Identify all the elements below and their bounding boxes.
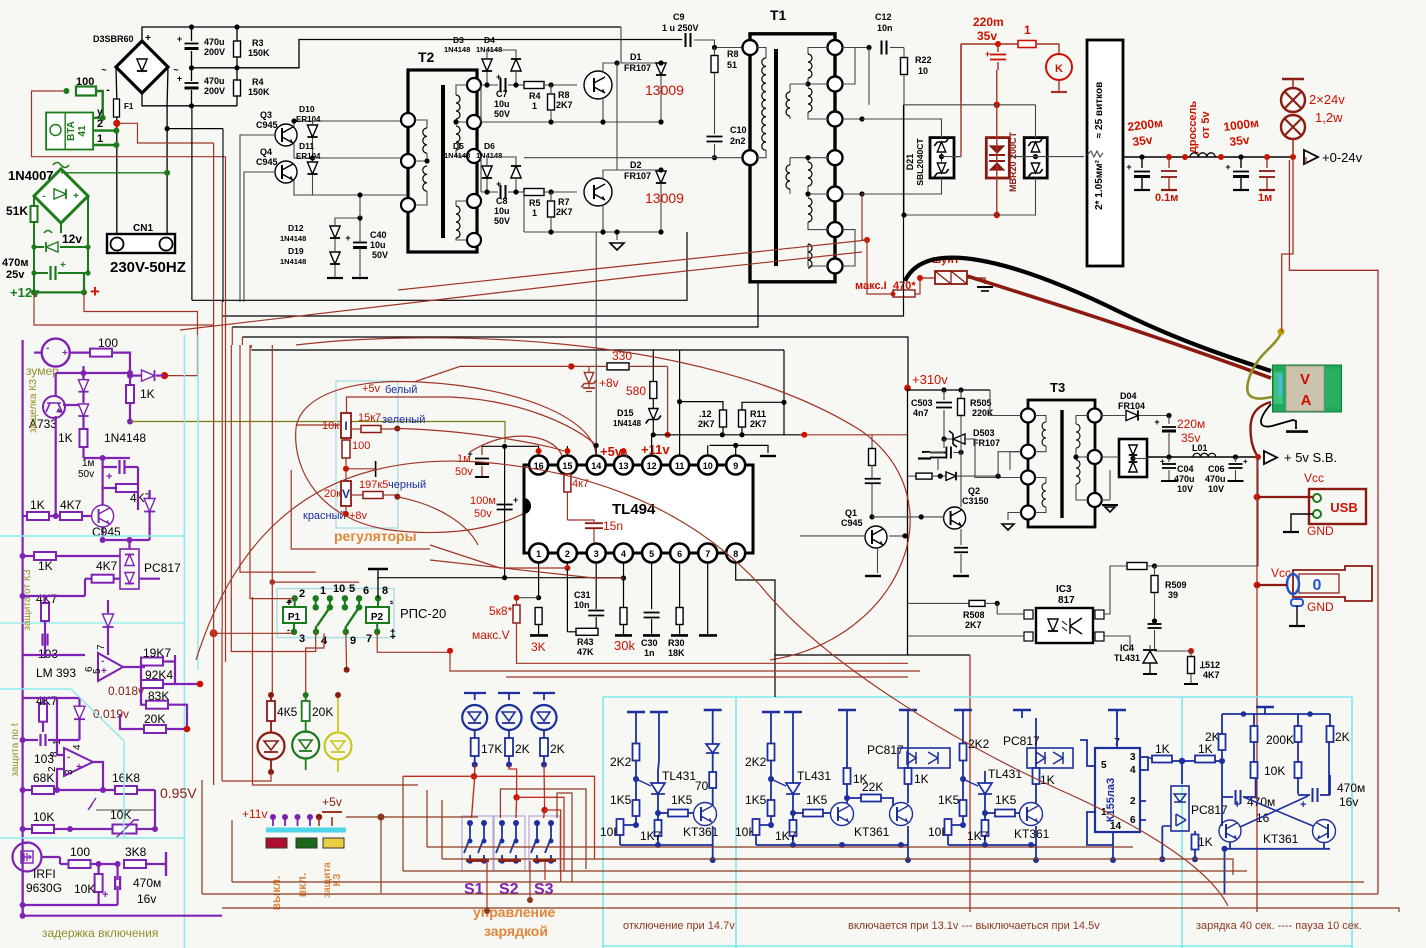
wire mid rail — [192, 40, 683, 68]
wire usb gnd — [1291, 514, 1313, 531]
svg-text:0.1м: 0.1м — [1155, 192, 1178, 204]
resistor above R509 — [1127, 563, 1147, 570]
bridge rectifier D3SBR60 — [116, 41, 168, 93]
svg-text:10u: 10u — [494, 99, 510, 109]
svg-text:+: + — [106, 471, 112, 483]
wire T3 pin2 to Q2 — [1010, 452, 1021, 470]
wire green AC to CN1 column — [61, 172, 167, 174]
wire relay feed pin2 — [250, 345, 295, 599]
svg-text:Ʇ512: Ʇ512 — [1199, 660, 1220, 670]
wire q bases feed — [222, 129, 224, 302]
svg-text:T3: T3 — [1050, 380, 1065, 395]
resistor 4K7 opto — [92, 575, 114, 583]
svg-text:зеленый: зеленый — [382, 414, 425, 426]
schottky block — [1119, 439, 1147, 477]
wire pin2 down — [566, 562, 568, 568]
svg-text:1: 1 — [532, 208, 537, 218]
svg-text:2K7: 2K7 — [750, 419, 767, 429]
svg-text:+: + — [102, 889, 108, 901]
svg-text:I: I — [344, 419, 347, 433]
wire usb vcc red — [1254, 494, 1261, 501]
svg-text:+: + — [513, 495, 518, 505]
wire right big loop red — [1305, 157, 1307, 163]
svg-text:К155ла3: К155ла3 — [1105, 778, 1117, 822]
wire top rail to D1 — [621, 27, 661, 63]
svg-text:9630G: 9630G — [26, 881, 62, 895]
relay cyan box — [277, 589, 394, 638]
svg-text:-: - — [42, 191, 45, 202]
capacitor 15n red — [566, 507, 568, 520]
wire relay pin3 bus — [210, 629, 218, 637]
svg-text:470м: 470м — [133, 876, 161, 890]
svg-text:+: + — [60, 260, 66, 271]
svg-text:35v: 35v — [977, 29, 997, 43]
resistor 16K8 — [115, 786, 137, 794]
resistor 68K — [32, 786, 54, 794]
svg-text:C945: C945 — [841, 518, 863, 528]
svg-text:1,2w: 1,2w — [1315, 110, 1343, 125]
triac BTA41 — [46, 113, 93, 150]
svg-text:10: 10 — [918, 66, 928, 76]
svg-text:200V: 200V — [204, 47, 225, 57]
svg-text:защита по t: защита по t — [10, 723, 21, 777]
svg-text:150K: 150K — [248, 87, 270, 97]
svg-text:4: 4 — [621, 549, 626, 559]
svg-text:2×24v: 2×24v — [1309, 92, 1345, 107]
svg-text:41: 41 — [77, 125, 88, 137]
svg-text:+: + — [76, 762, 82, 773]
svg-text:10V: 10V — [1208, 484, 1224, 494]
wire olive to leds — [130, 422, 505, 444]
svg-text:белый: белый — [385, 384, 417, 396]
resistor 4k7 pin15 — [564, 474, 571, 492]
svg-text:1м: 1м — [1258, 192, 1272, 204]
wire D1 emitter — [602, 97, 604, 122]
wires Q1 Q2 — [871, 435, 873, 448]
svg-text:6: 6 — [677, 549, 682, 559]
svg-text:C30: C30 — [641, 638, 658, 648]
wire pin15 stub — [566, 446, 568, 455]
svg-text:+5v: +5v — [600, 444, 623, 459]
svg-text:1N4148: 1N4148 — [613, 419, 642, 428]
wire 12v red B — [34, 292, 214, 325]
svg-text:Q1: Q1 — [845, 508, 857, 518]
wire lamps to rail — [1292, 139, 1294, 157]
regulators cyan box — [336, 381, 398, 528]
svg-text:TL431: TL431 — [797, 769, 831, 783]
red wire 11v bus — [667, 435, 669, 440]
svg-text:+: + — [90, 282, 100, 301]
svg-text:PC817: PC817 — [144, 561, 181, 575]
svg-text:3: 3 — [299, 633, 305, 645]
svg-text:470м: 470м — [1337, 781, 1365, 795]
capacitor C1 470u 200V — [191, 27, 193, 41]
svg-text:.12: .12 — [699, 409, 712, 419]
svg-text:зарядка 40 сек. ---- пауза 10: зарядка 40 сек. ---- пауза 10 сек. — [1196, 920, 1362, 932]
diode s4 — [74, 706, 85, 719]
svg-text:черный: черный — [388, 479, 426, 491]
svg-text:~: ~ — [101, 65, 106, 75]
section2 resistor 1K — [34, 552, 56, 560]
rail bottom 4 — [232, 881, 1364, 883]
resistor 4K5 dark red — [268, 692, 274, 698]
svg-text:отключение при 14.7v: отключение при 14.7v — [623, 920, 735, 932]
svg-text:регуляторы: регуляторы — [334, 528, 417, 544]
wire BTA pin y — [93, 117, 103, 119]
svg-text:0.018v: 0.018v — [108, 684, 144, 698]
svg-text:D21: D21 — [905, 154, 915, 171]
wire opto3 — [908, 635, 1025, 637]
svg-text:1N4148: 1N4148 — [444, 151, 470, 160]
svg-text:+8v: +8v — [599, 376, 619, 390]
svg-text:1м: 1м — [82, 458, 95, 469]
capacitor 470m 16v purple — [114, 876, 116, 890]
svg-text:C945: C945 — [256, 157, 278, 167]
svg-text:5: 5 — [649, 549, 654, 559]
capacitor C8 10u 50V — [500, 185, 502, 199]
wire crossover 5 — [251, 349, 784, 351]
svg-text:1N4148: 1N4148 — [476, 151, 502, 160]
resistor R7 2K7 — [548, 189, 553, 194]
rail above IC — [653, 434, 804, 436]
svg-text:10K: 10K — [110, 808, 131, 822]
switch boxes below — [266, 838, 287, 848]
svg-text:25v: 25v — [6, 269, 25, 281]
svg-text:+: + — [1126, 162, 1131, 172]
capacitor C7 10u 50V — [500, 78, 502, 92]
svg-text:50v: 50v — [474, 508, 492, 520]
svg-text:D04: D04 — [1120, 391, 1137, 401]
svg-text:1K5: 1K5 — [671, 793, 693, 807]
svg-text:PC817: PC817 — [1003, 734, 1040, 748]
svg-text:R3: R3 — [252, 38, 264, 48]
svg-text:R8: R8 — [558, 90, 570, 100]
wire sb down right — [1155, 457, 1259, 566]
red net to bottom — [516, 662, 908, 664]
svg-text:1: 1 — [532, 101, 537, 111]
svg-text:+: + — [177, 74, 182, 84]
svg-text:50V: 50V — [372, 250, 388, 260]
resistor R30 18K — [679, 562, 681, 607]
svg-text:Q4: Q4 — [260, 147, 272, 157]
resistor R5 1 — [524, 189, 544, 196]
wire D1 collector — [603, 63, 617, 72]
wire pot top white — [347, 397, 451, 413]
svg-text:1: 1 — [1024, 23, 1031, 37]
svg-text:4K7: 4K7 — [60, 498, 82, 512]
svg-text:16v: 16v — [1339, 795, 1358, 809]
wire 100 feed red — [32, 91, 226, 157]
resistor R8b 51 — [712, 45, 717, 50]
blue LED 2 — [498, 692, 520, 694]
switch box S2 — [494, 816, 525, 871]
svg-text:51K: 51K — [6, 204, 28, 218]
LED red — [258, 733, 285, 760]
wire D2 emitter bottom — [602, 204, 604, 232]
svg-text:+: + — [1160, 457, 1165, 466]
diode D1 FR107 — [656, 63, 666, 75]
svg-text:13009: 13009 — [645, 190, 684, 206]
wire T3 pin3 to D503 — [975, 455, 1021, 478]
svg-text:-: - — [106, 84, 110, 96]
svg-text:4к7: 4к7 — [572, 478, 589, 490]
wire red cap into MBR — [996, 70, 998, 105]
resistor 10K row5 — [32, 825, 54, 833]
resistor 3K — [535, 608, 542, 625]
T2 right winding upper — [456, 85, 467, 95]
svg-text:220м: 220м — [1177, 417, 1205, 431]
node 220m wire red — [961, 43, 1027, 45]
wire led1 drop red — [474, 765, 476, 777]
wire section3 bus — [23, 595, 85, 597]
svg-text:2K7: 2K7 — [698, 419, 715, 429]
optocoupler PC817 purple — [120, 549, 139, 589]
svg-text:1N4148: 1N4148 — [280, 257, 306, 266]
diode to node red — [130, 375, 141, 377]
wire tl431 ref c1 — [633, 776, 639, 782]
svg-text:GND: GND — [1307, 600, 1334, 614]
svg-text:470u: 470u — [204, 37, 225, 47]
svg-text:≈ 25 витков: ≈ 25 витков — [1094, 82, 1105, 139]
svg-text:KT361: KT361 — [1263, 832, 1299, 846]
svg-text:2: 2 — [565, 549, 570, 559]
meter K red — [1036, 44, 1059, 54]
svg-text:Q2: Q2 — [968, 486, 980, 496]
svg-text:1K: 1K — [914, 772, 929, 786]
relay P1 — [283, 607, 306, 623]
diodes latch purple — [78, 380, 88, 392]
wire pin4 down — [623, 562, 625, 578]
svg-text:R11: R11 — [750, 409, 766, 419]
wire left column down 1 — [221, 300, 223, 629]
svg-text:L01: L01 — [1192, 443, 1208, 453]
svg-text:+11v: +11v — [641, 442, 670, 457]
wire crossover 2 — [222, 105, 903, 316]
resistor 1K latch — [80, 429, 88, 447]
svg-text:17K: 17K — [481, 742, 502, 756]
wire led3 drop red — [543, 765, 546, 810]
svg-text:92K4: 92K4 — [145, 668, 173, 682]
svg-text:8: 8 — [382, 585, 388, 597]
svg-text:C12: C12 — [875, 12, 892, 22]
svg-text:50V: 50V — [494, 109, 510, 119]
svg-text:C945: C945 — [256, 120, 278, 130]
cyan borders purple top — [183, 335, 185, 948]
svg-text:Q3: Q3 — [260, 110, 272, 120]
capacitor 1m red — [1264, 154, 1270, 160]
svg-text:4K7: 4K7 — [96, 559, 118, 573]
wire relay pin7 right — [377, 632, 450, 653]
svg-text:TL431: TL431 — [662, 769, 696, 783]
wire y549 right — [291, 470, 430, 549]
switch +5v T — [331, 817, 333, 826]
svg-text:+0-24v: +0-24v — [1322, 150, 1363, 165]
wire driver to T2 — [313, 120, 407, 122]
wire T3 primary bottom — [1008, 513, 1021, 521]
svg-text:D5: D5 — [453, 141, 464, 151]
svg-text:+: + — [390, 632, 396, 643]
svg-text:200V: 200V — [204, 86, 225, 96]
svg-text:10V: 10V — [1177, 484, 1193, 494]
wire T1 bottom-left feed — [524, 157, 743, 159]
svg-text:1 u 250V: 1 u 250V — [662, 23, 699, 33]
resistors 1K 4K7 row — [27, 512, 49, 520]
zener +8v ref — [581, 373, 596, 388]
wire purple bottom join — [23, 915, 222, 917]
wire mid join upper — [481, 121, 661, 123]
svg-text:выкл.: выкл. — [269, 876, 283, 911]
TL494 top pins — [529, 456, 548, 475]
svg-text:C503: C503 — [911, 398, 933, 408]
svg-text:макс.V: макс.V — [472, 628, 510, 642]
thick red wire to module — [967, 276, 1271, 378]
svg-text:ER104: ER104 — [296, 152, 321, 161]
svg-text:3K: 3K — [531, 640, 546, 654]
svg-text:2K7: 2K7 — [556, 100, 573, 110]
svg-text:D1: D1 — [630, 52, 642, 62]
svg-text:+: + — [286, 598, 292, 609]
node mains red — [113, 120, 120, 127]
svg-text:+310v: +310v — [912, 372, 948, 387]
transistor C945 purple — [92, 505, 114, 527]
svg-text:F1: F1 — [124, 102, 134, 111]
wire mosfet — [23, 842, 27, 844]
svg-text:22K: 22K — [862, 780, 883, 794]
wire Q4 emitter — [294, 180, 313, 195]
svg-text:2K2: 2K2 — [745, 755, 767, 769]
red curve big 2 — [196, 461, 760, 660]
T3 right pins — [1088, 409, 1102, 423]
svg-text:35v: 35v — [1132, 133, 1154, 149]
svg-text:1: 1 — [536, 549, 541, 559]
fuse F1 — [115, 67, 118, 99]
wire pin10 pin9 gnd — [707, 445, 709, 455]
wire Q3 emitter — [294, 143, 313, 158]
svg-text:68K: 68K — [33, 771, 54, 785]
svg-text:5: 5 — [349, 583, 355, 595]
svg-text:FR107: FR107 — [973, 438, 1000, 448]
svg-text:+: + — [1300, 799, 1306, 811]
wire 12v red A — [84, 292, 198, 375]
wire reg left — [296, 424, 341, 426]
svg-text:IC3: IC3 — [1056, 584, 1072, 595]
svg-text:3: 3 — [594, 549, 599, 559]
wire bottom rail — [142, 93, 237, 106]
transistor KT361 c2c — [1020, 803, 1043, 826]
T2 right pins — [467, 78, 481, 92]
svg-text:D503: D503 — [973, 428, 995, 438]
wire maks red — [862, 194, 867, 240]
svg-text:0.019v: 0.019v — [93, 707, 129, 721]
svg-text:817: 817 — [1058, 595, 1075, 606]
svg-text:P1: P1 — [288, 612, 301, 623]
svg-text:4K7: 4K7 — [1203, 670, 1220, 680]
resistor 83K — [146, 701, 168, 709]
ground shunt — [977, 286, 993, 288]
IC TL494 body — [524, 465, 753, 553]
wire relay feed pin6 — [272, 345, 359, 582]
svg-text:10K: 10K — [1264, 764, 1285, 778]
resistor 1 red — [1018, 41, 1036, 48]
resistor 19K7 — [141, 658, 163, 666]
svg-text:10n: 10n — [877, 23, 893, 33]
wire fb arrow — [57, 789, 103, 791]
squiggle AC mark — [53, 163, 69, 168]
svg-text:R4: R4 — [529, 91, 541, 101]
svg-text:1K5: 1K5 — [745, 793, 767, 807]
switch contacts — [270, 814, 276, 820]
svg-text:S2: S2 — [499, 881, 519, 898]
wire R508 path — [908, 602, 970, 604]
svg-text:D6: D6 — [484, 141, 495, 151]
wire crossover 3 — [232, 283, 758, 327]
svg-text:1N4148: 1N4148 — [104, 431, 146, 445]
svg-text:10K: 10K — [33, 810, 54, 824]
wire pin7 gnd — [707, 562, 709, 634]
lamps 2x24v — [1282, 78, 1304, 80]
diode D10 ER104 — [166, 128, 168, 130]
cyan frame bottom — [603, 945, 1352, 947]
svg-text:1K: 1K — [38, 559, 53, 573]
svg-text:+5v: +5v — [322, 795, 342, 809]
wire opto top — [128, 540, 130, 549]
svg-text:1N4007: 1N4007 — [8, 168, 54, 183]
opamp 1 triangle — [98, 653, 123, 681]
resistor 20K green — [303, 692, 309, 698]
resistor R8 2K7 — [548, 82, 553, 87]
wire pin14 up long — [595, 445, 597, 455]
switch box S1 — [462, 816, 493, 871]
svg-text:C945: C945 — [92, 525, 121, 539]
svg-text:D3SBR60: D3SBR60 — [93, 34, 134, 44]
capacitor 0.1m red — [1166, 154, 1172, 160]
svg-text:1K7: 1K7 — [775, 829, 797, 843]
arrow +5v SB — [1255, 454, 1261, 460]
wire right red frame — [908, 654, 971, 656]
svg-text:13: 13 — [618, 461, 628, 471]
svg-text:100: 100 — [70, 845, 90, 859]
wire packs top bottom frame — [904, 104, 1036, 106]
T1 left pins — [743, 40, 758, 55]
wire crossover 1 — [192, 240, 687, 300]
wire lamp leg down — [1282, 157, 1293, 332]
svg-text:10: 10 — [333, 583, 345, 595]
svg-text:C31: C31 — [574, 590, 591, 600]
svg-text:1K: 1K — [30, 498, 45, 512]
svg-text:11: 11 — [675, 461, 685, 471]
svg-text:+: + — [177, 34, 182, 44]
flip flop cross wires — [1244, 797, 1314, 826]
wire led feed red vertical — [270, 695, 272, 701]
svg-text:зумер: зумер — [26, 364, 59, 378]
svg-text:7: 7 — [366, 633, 372, 645]
transistor D1 13009 — [584, 71, 612, 99]
resistor R4a 1 — [524, 82, 544, 89]
diode D11 ER104 — [307, 162, 317, 174]
wire pin5 down cap C30 — [651, 562, 653, 609]
svg-text:P2: P2 — [371, 612, 384, 623]
wire +12v bottom green — [34, 291, 84, 293]
T2 left pins — [401, 113, 415, 127]
capacitor C10 2n2 — [707, 136, 723, 138]
svg-text:защелка КЗ: защелка КЗ — [28, 379, 39, 433]
rail bottom 6 — [222, 908, 1399, 912]
svg-text:2K: 2K — [1205, 730, 1220, 744]
T1 secondary windings — [808, 48, 828, 55]
svg-text:+: + — [73, 191, 79, 202]
svg-text:1K5: 1K5 — [806, 793, 828, 807]
wire left column down 2 — [231, 327, 233, 345]
